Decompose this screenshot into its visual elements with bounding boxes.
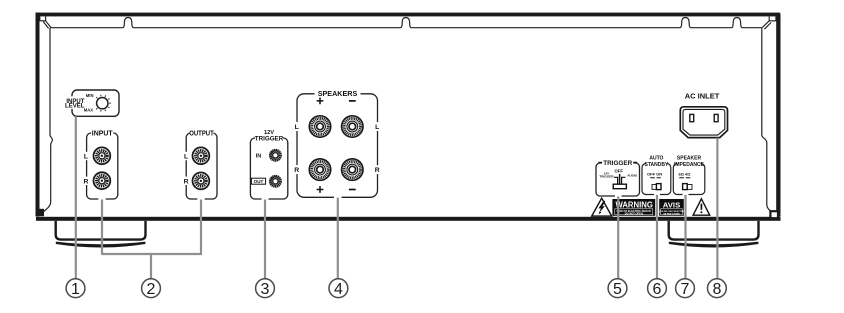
svg-text:INPUT: INPUT bbox=[92, 131, 114, 138]
svg-text:5: 5 bbox=[613, 281, 622, 298]
INPUT L RCA jack bbox=[94, 147, 111, 164]
AC inlet left prong slot bbox=[690, 114, 694, 121]
svg-text:DO NOT OPEN: DO NOT OPEN bbox=[625, 212, 643, 216]
trigger OUT minijack bbox=[271, 177, 280, 186]
AC inlet inner outline bbox=[683, 109, 725, 135]
SPEAKERS label bbox=[315, 90, 361, 97]
svg-text:OFF ON: OFF ON bbox=[647, 171, 662, 176]
svg-text:L: L bbox=[295, 124, 299, 131]
callout circle 7 bbox=[676, 279, 695, 298]
top-right corner notch bbox=[769, 16, 776, 20]
speaker terminal L- bbox=[342, 116, 363, 137]
svg-text:R: R bbox=[184, 178, 189, 185]
callout circle 6 bbox=[648, 279, 667, 298]
svg-text:STANDBY: STANDBY bbox=[645, 162, 669, 168]
warning lightning triangle bbox=[592, 198, 612, 216]
svg-text:L: L bbox=[184, 154, 188, 161]
leader line 3 from 12V trigger bbox=[264, 200, 266, 279]
speakers left L label bbox=[294, 122, 300, 131]
svg-text:3: 3 bbox=[261, 281, 270, 298]
AC inlet outer outline bbox=[680, 107, 727, 138]
svg-text:RISQUE DE CHOC ELECTRIQUE: RISQUE DE CHOC ELECTRIQUE bbox=[655, 211, 688, 213]
speakers bottom minus mark bbox=[349, 189, 356, 191]
SPEAKERS group box bbox=[297, 94, 378, 198]
panel outer border top bar bbox=[36, 13, 780, 17]
speaker terminal R- bbox=[342, 159, 363, 180]
SPEAKER IMPEDANCE header bbox=[678, 161, 701, 167]
SPEAKER IMPEDANCE box bottom gap bbox=[683, 192, 689, 197]
top-left corner bevel diagonals bbox=[43, 21, 51, 29]
left foot outline bbox=[56, 221, 146, 240]
svg-text:R: R bbox=[83, 178, 88, 185]
right foot pad bbox=[669, 242, 759, 248]
lightning bolt bbox=[599, 201, 606, 213]
12V TRIGGER box bottom gap bbox=[262, 196, 269, 201]
OUTPUT label bbox=[190, 130, 214, 137]
WARNING black label bbox=[612, 199, 655, 216]
TRIGGER box bottom gap bbox=[615, 193, 622, 198]
AUTO STANDBY header bbox=[646, 161, 667, 167]
leader line 5 from trigger switch bbox=[617, 196, 619, 278]
trigger switch pedestal glyph bbox=[619, 174, 621, 184]
svg-text:R: R bbox=[294, 167, 299, 174]
speakers top plus mark bbox=[317, 98, 324, 105]
bottom-right corner block bbox=[770, 211, 778, 218]
AC inlet right prong slot bbox=[714, 114, 718, 121]
svg-text:LEVEL: LEVEL bbox=[65, 104, 85, 110]
INPUT R label bbox=[83, 177, 89, 185]
level knob bbox=[97, 98, 108, 109]
speakers right R label bbox=[374, 165, 380, 174]
SPEAKERS box bottom gap bbox=[334, 195, 342, 201]
bottom-left corner block bbox=[36, 209, 44, 216]
svg-text:IN: IN bbox=[256, 154, 261, 160]
exclamation mark bbox=[700, 204, 702, 210]
panel outer border bottom bar bbox=[36, 217, 781, 221]
INPUT L label bbox=[83, 152, 89, 160]
panel outer border right bar bbox=[776, 14, 780, 217]
svg-text:MIN: MIN bbox=[86, 93, 94, 98]
leader line 1 from level knob bbox=[75, 116, 77, 278]
INPUT group box bbox=[87, 133, 118, 199]
leader line 4 from speakers bbox=[337, 198, 339, 279]
svg-text:L: L bbox=[375, 124, 379, 131]
speaker terminal R+ bbox=[309, 159, 330, 180]
inner right line with seam jog bbox=[762, 28, 773, 213]
svg-text:WARNING: WARNING bbox=[615, 201, 653, 210]
trigger IN minijack bbox=[271, 151, 280, 160]
svg-text:TRIGGER: TRIGGER bbox=[603, 160, 632, 167]
OUT boxed label bbox=[251, 178, 265, 184]
svg-text:NE PAS OUVRIR: NE PAS OUVRIR bbox=[663, 213, 680, 216]
knob tick marks bbox=[96, 95, 111, 112]
svg-text:AVIS: AVIS bbox=[663, 201, 681, 210]
speakers left R label bbox=[294, 165, 300, 174]
warning exclamation triangle bbox=[693, 199, 710, 215]
top-left corner notch bbox=[40, 16, 46, 20]
svg-text:1: 1 bbox=[71, 281, 80, 298]
left foot pad bbox=[56, 242, 146, 248]
svg-text:8: 8 bbox=[712, 281, 721, 298]
right foot outline bbox=[669, 221, 759, 240]
OUTPUT L RCA jack bbox=[193, 147, 210, 164]
svg-text:AC INLET: AC INLET bbox=[685, 92, 720, 101]
svg-text:OUTPUT: OUTPUT bbox=[189, 131, 214, 138]
INPUT box bottom gap bbox=[98, 196, 105, 201]
svg-text:OUT: OUT bbox=[254, 179, 264, 184]
callout circle 1 bbox=[66, 279, 85, 298]
callout circle 3 bbox=[256, 279, 275, 298]
INPUT LEVEL label bbox=[63, 96, 85, 109]
svg-text:SPEAKERS: SPEAKERS bbox=[318, 89, 358, 98]
svg-text:TRIGGER: TRIGGER bbox=[599, 174, 614, 178]
svg-text:6Ω 4Ω: 6Ω 4Ω bbox=[679, 171, 692, 176]
leader line 7 from speaker impedance bbox=[684, 195, 686, 279]
callout circle 4 bbox=[329, 279, 348, 298]
speakers right L label bbox=[374, 122, 380, 131]
OUTPUT R label bbox=[183, 177, 189, 185]
svg-text:SPEAKER: SPEAKER bbox=[677, 155, 702, 161]
AUTO STANDBY switch box bbox=[642, 164, 671, 195]
svg-text:L: L bbox=[84, 154, 88, 161]
svg-text:7: 7 bbox=[681, 281, 690, 298]
callout circle 8 bbox=[708, 279, 727, 298]
speakers bottom plus mark bbox=[317, 186, 324, 193]
OUTPUT group box bbox=[186, 133, 217, 199]
inner top line with 4 screw bumps bbox=[50, 18, 761, 28]
leader line 8 from AC inlet bbox=[716, 138, 718, 279]
INPUT LEVEL control box bbox=[72, 90, 119, 116]
TRIGGER header bbox=[602, 159, 633, 165]
impedance switch icon bbox=[687, 185, 692, 190]
OUTPUT R RCA jack bbox=[193, 173, 210, 190]
inner left line with seam jog bbox=[43, 28, 52, 213]
callout circle 5 bbox=[608, 279, 627, 298]
AVIS black label bbox=[659, 199, 684, 216]
SPEAKER IMPEDANCE switch box bbox=[673, 164, 705, 195]
auto standby switch icon bbox=[652, 185, 657, 190]
svg-text:AUTO: AUTO bbox=[649, 155, 663, 161]
12V TRIGGER group box bbox=[250, 138, 287, 199]
speakers top minus mark bbox=[349, 100, 356, 102]
svg-text:TRIGGER: TRIGGER bbox=[255, 136, 284, 143]
OUTPUT box bottom gap bbox=[197, 196, 204, 201]
svg-text:IMPEDANCE: IMPEDANCE bbox=[674, 162, 705, 168]
callout circle 2 bbox=[142, 279, 161, 298]
INPUT label bbox=[91, 130, 113, 137]
svg-text:AUDIO: AUDIO bbox=[627, 173, 638, 177]
top-right corner bevel diagonals bbox=[762, 21, 771, 29]
AUTO STANDBY box bottom gap bbox=[654, 192, 660, 197]
svg-text:OFF: OFF bbox=[615, 169, 624, 174]
leader line 2 from input and output bbox=[101, 200, 202, 279]
OUTPUT L label bbox=[183, 152, 189, 160]
panel outer border left bar bbox=[36, 13, 40, 217]
TRIGGER switch box bbox=[596, 163, 640, 196]
INPUT R RCA jack bbox=[94, 172, 111, 189]
svg-text:2: 2 bbox=[147, 281, 156, 298]
svg-text:4: 4 bbox=[334, 281, 343, 298]
svg-text:MAX: MAX bbox=[84, 108, 94, 113]
svg-text:6: 6 bbox=[653, 281, 662, 298]
speaker terminal L+ bbox=[309, 116, 330, 137]
svg-text:R: R bbox=[375, 167, 380, 174]
leader line 6 from auto standby bbox=[656, 195, 658, 279]
